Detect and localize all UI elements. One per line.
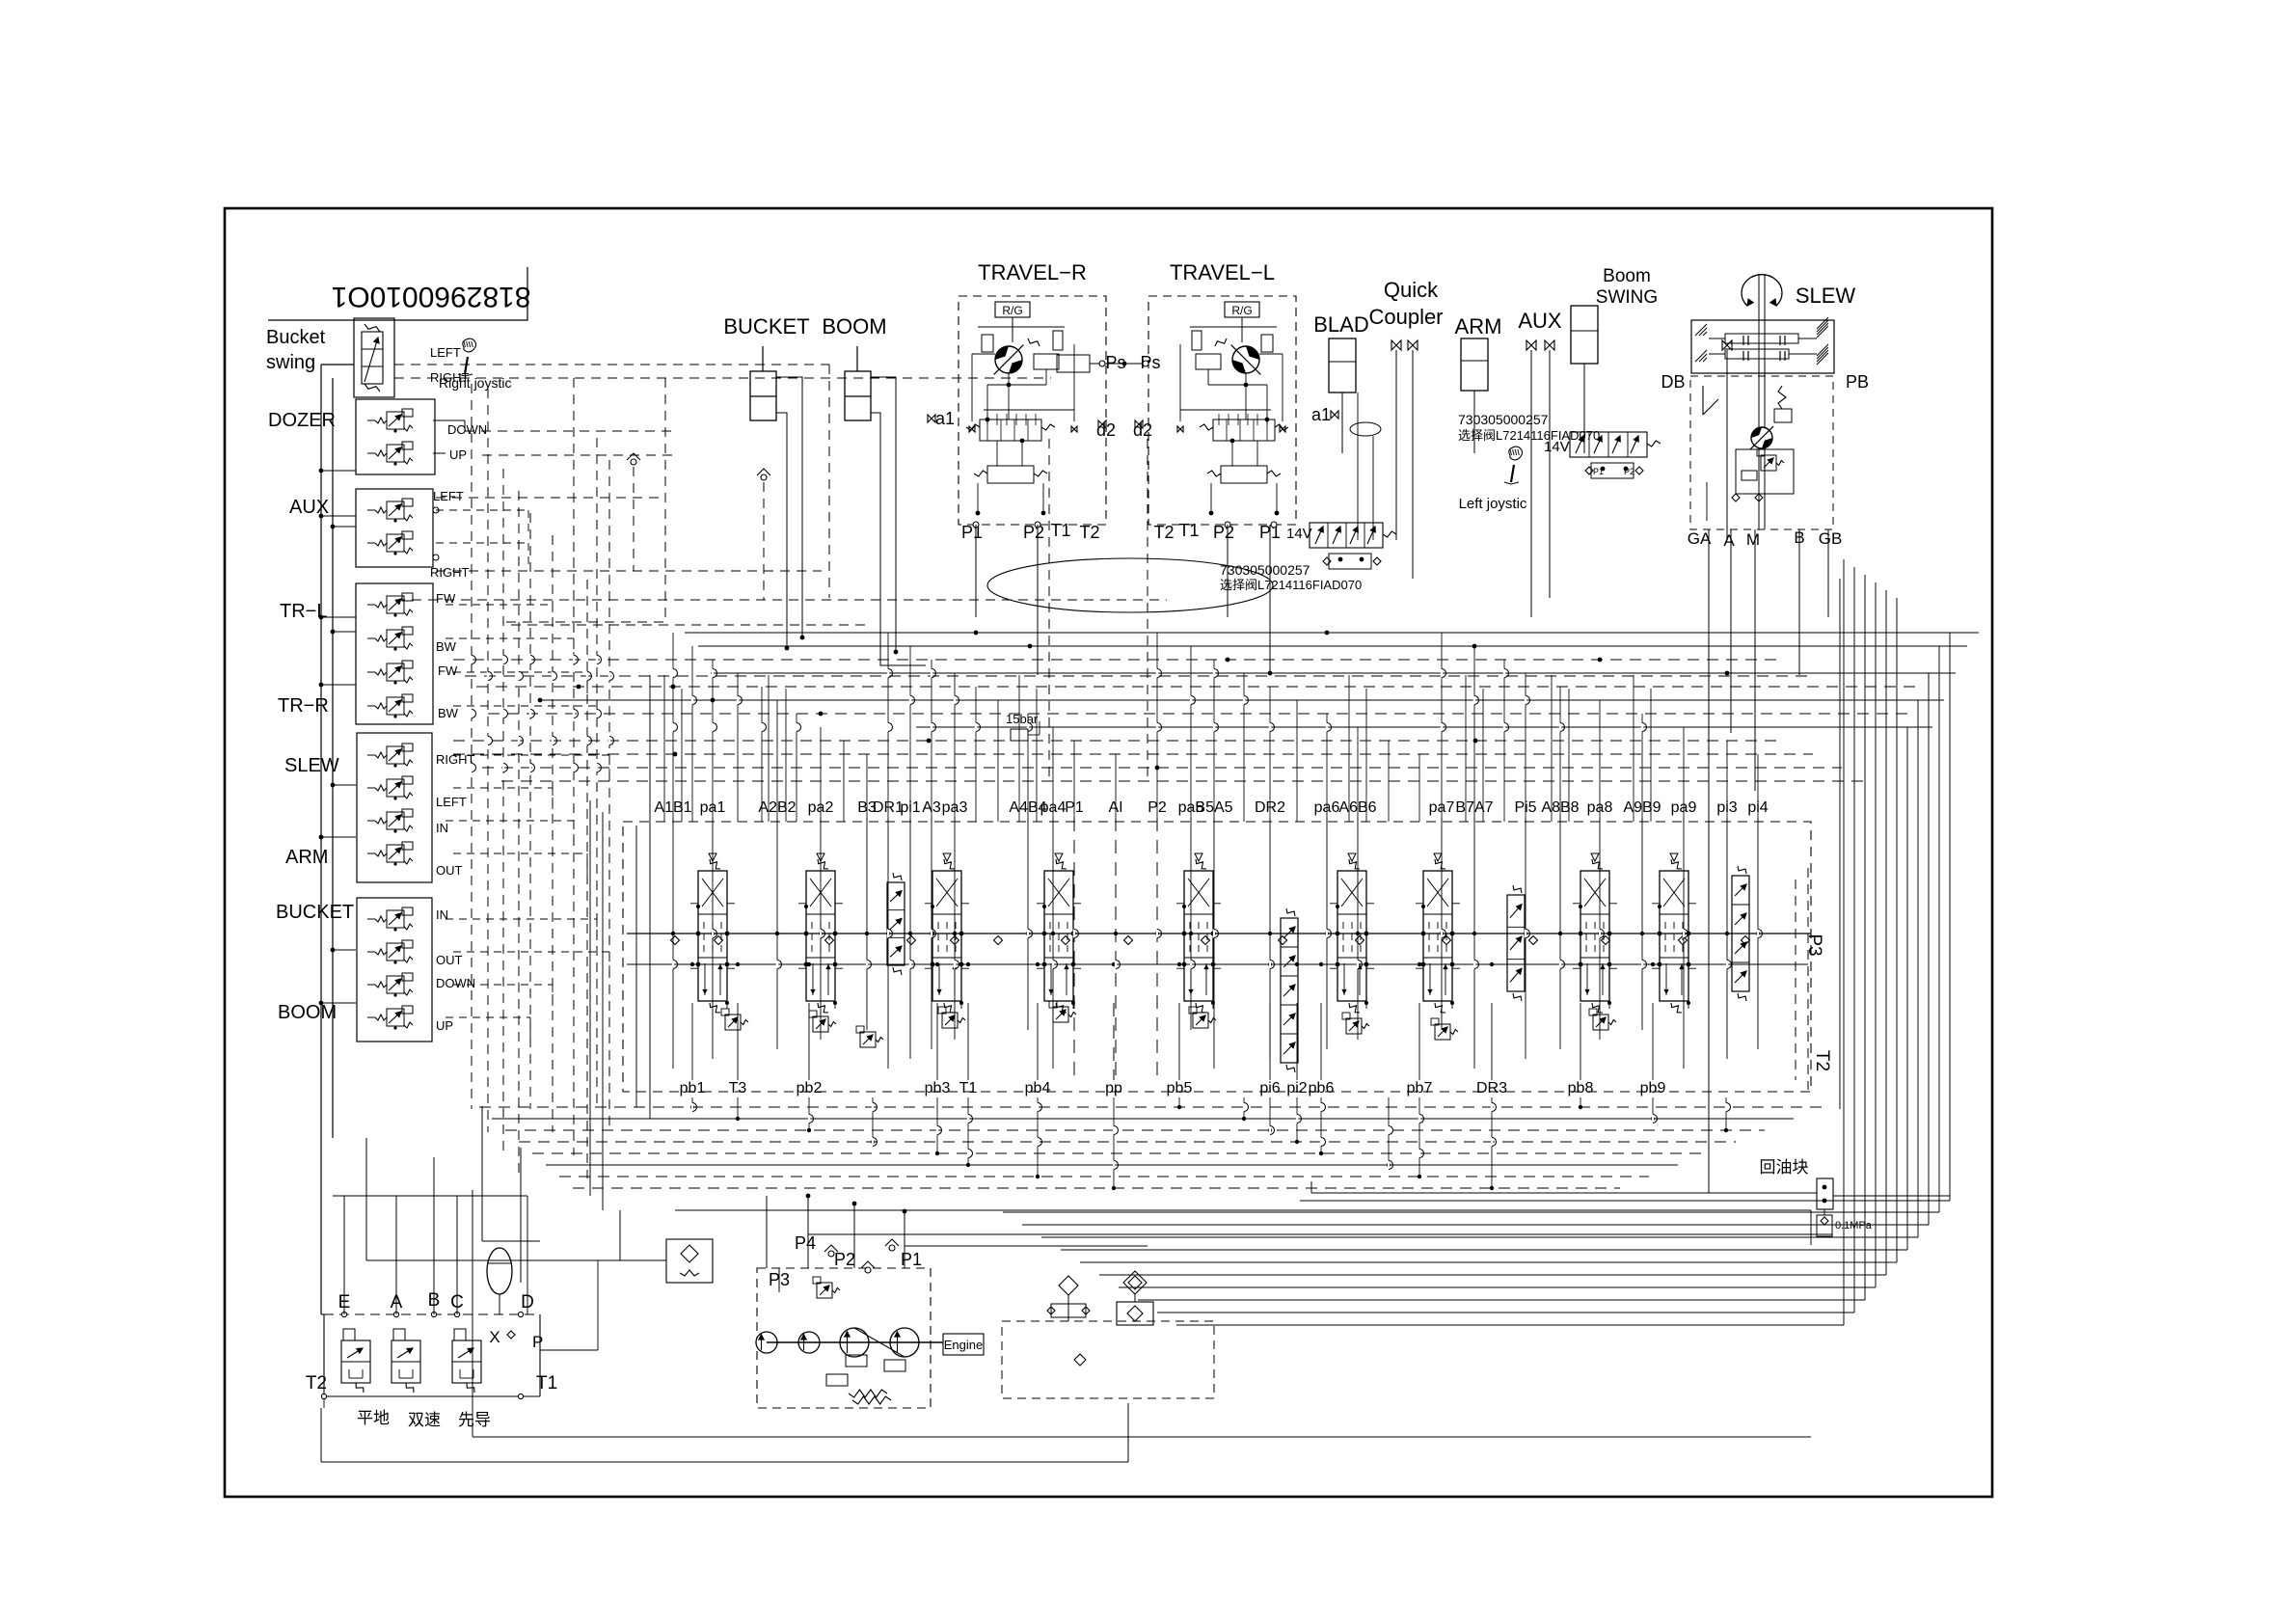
engine box (943, 1334, 984, 1355)
pilot sections (887, 882, 905, 965)
svg-text:平地: 平地 (357, 1409, 390, 1427)
svg-text:Engine: Engine (944, 1338, 983, 1352)
travel motor unit TRAVEL−R (959, 296, 1106, 525)
svg-text:BUCKET: BUCKET (723, 314, 809, 338)
pilot bus horizontal dashed lines (394, 377, 1051, 379)
svg-text:T2: T2 (306, 1373, 327, 1394)
svg-text:a1: a1 (1311, 405, 1331, 424)
svg-text:BLAD: BLAD (1313, 312, 1368, 337)
svg-text:pb4: pb4 (1025, 1080, 1051, 1096)
svg-text:R/G: R/G (1231, 304, 1252, 317)
travel pilot dashed drops (1048, 439, 1050, 783)
svg-text:BW: BW (436, 639, 457, 654)
svg-text:a1: a1 (935, 409, 955, 428)
central valve manifold outline (623, 822, 1811, 1092)
main spool sections (698, 871, 727, 1001)
svg-text:Right joystic: Right joystic (439, 375, 511, 391)
left supply wire (320, 365, 322, 1314)
border frame (225, 208, 1992, 1497)
svg-text:pb6: pb6 (1309, 1080, 1335, 1096)
svg-text:OUT: OUT (436, 863, 463, 878)
breather valve (1059, 1276, 1078, 1295)
check valve pilot lines (627, 453, 640, 460)
svg-text:0.1MPa: 0.1MPa (1835, 1220, 1873, 1232)
svg-text:pb1: pb1 (680, 1080, 706, 1096)
svg-text:LEFT: LEFT (436, 795, 467, 809)
right margin bus lines (1949, 633, 1951, 1201)
svg-text:Bucket: Bucket (266, 327, 326, 348)
svg-text:Quick: Quick (1384, 278, 1439, 302)
svg-text:P3: P3 (1804, 934, 1824, 956)
svg-text:BOOM: BOOM (278, 1002, 337, 1023)
svg-text:DR3: DR3 (1476, 1080, 1507, 1096)
svg-text:pb5: pb5 (1167, 1080, 1193, 1096)
P3 T2 dashed verticals (1795, 880, 1796, 1080)
port pair drops (663, 675, 665, 822)
svg-text:TRAVEL−L: TRAVEL−L (1170, 260, 1275, 284)
drops into manifold (343, 1196, 345, 1314)
svg-text:T1: T1 (959, 1080, 978, 1096)
svg-text:T1: T1 (1050, 521, 1070, 540)
svg-text:ARM: ARM (285, 847, 328, 868)
svg-text:IN: IN (436, 821, 448, 835)
svg-text:T3: T3 (729, 1080, 747, 1096)
svg-text:OUT: OUT (436, 953, 463, 967)
svg-text:GA: GA (1688, 529, 1712, 548)
slew rotation symbol (1742, 275, 1782, 306)
vertical drops from top to manifold (672, 633, 674, 822)
svg-text:DB: DB (1661, 372, 1685, 392)
mid horizontal bus lines dashed (453, 659, 1784, 661)
svg-text:GB: GB (1819, 529, 1843, 548)
svg-text:Coupler: Coupler (1368, 305, 1443, 329)
manifold left feeder verticals (589, 800, 591, 1196)
svg-text:选择阀L7214116FIAD070: 选择阀L7214116FIAD070 (1220, 578, 1362, 592)
svg-text:pi6: pi6 (1259, 1080, 1280, 1096)
section relief valves (725, 1015, 741, 1030)
svg-text:T2: T2 (1079, 523, 1099, 542)
manifold junction dots (696, 932, 701, 936)
svg-text:D: D (521, 1292, 534, 1313)
accumulator D riser (527, 1196, 528, 1314)
svg-text:SWING: SWING (1596, 287, 1658, 308)
svg-text:8182960010O1: 8182960010O1 (332, 281, 531, 312)
tank dashed box (1002, 1321, 1214, 1398)
travel drop lines (975, 525, 977, 617)
svg-text:15bar: 15bar (1006, 712, 1039, 726)
svg-text:SLEW: SLEW (284, 755, 339, 776)
small hose ellipse (1350, 422, 1381, 436)
svg-text:AUX: AUX (1518, 309, 1562, 333)
manifold mid rail (627, 933, 1811, 934)
svg-text:swing: swing (266, 352, 315, 373)
pump outlet lines (808, 1233, 1832, 1235)
manifold vertical port wires (672, 818, 674, 1069)
slew gearbox (1691, 320, 1834, 373)
svg-text:TRAVEL−R: TRAVEL−R (978, 260, 1087, 284)
svg-text:pi2: pi2 (1286, 1080, 1307, 1096)
svg-text:先导: 先导 (458, 1411, 491, 1429)
svg-text:pb8: pb8 (1568, 1080, 1594, 1096)
svg-text:T2: T2 (1812, 1050, 1832, 1071)
manifold rail jogs (672, 961, 674, 969)
svg-text:LEFT: LEFT (433, 489, 464, 503)
bottom bus lines (479, 1106, 1823, 1108)
drawing number box (268, 267, 527, 320)
svg-text:pb7: pb7 (1407, 1080, 1433, 1096)
svg-text:IN: IN (436, 907, 448, 922)
svg-text:T1: T1 (536, 1373, 557, 1394)
svg-text:P2: P2 (834, 1250, 855, 1269)
svg-text:双速: 双速 (408, 1411, 441, 1429)
pilot port link dashes (436, 509, 528, 511)
slew drop lines (1708, 529, 1710, 1193)
svg-text:LEFT: LEFT (430, 345, 461, 360)
svg-text:ARM: ARM (1455, 314, 1502, 338)
svg-text:P4: P4 (795, 1233, 816, 1253)
svg-text:T2: T2 (1153, 523, 1174, 542)
wire jump-over jogs (672, 669, 674, 678)
svg-text:Boom: Boom (1603, 266, 1651, 286)
svg-text:P1: P1 (961, 523, 983, 542)
return filter (1123, 1271, 1147, 1294)
svg-text:P2: P2 (1023, 523, 1044, 542)
pilot bus vertical dashed lines (471, 384, 473, 1109)
svg-text:P: P (532, 1333, 543, 1351)
svg-text:pb9: pb9 (1640, 1080, 1666, 1096)
top-left dashed loop (573, 378, 575, 622)
svg-text:730305000257: 730305000257 (1458, 412, 1549, 427)
travel motor unit TRAVEL−L (1148, 296, 1296, 525)
svg-text:回油块: 回油块 (1760, 1158, 1809, 1177)
bottom band left risers (481, 1106, 483, 1241)
svg-text:BW: BW (438, 706, 459, 720)
svg-text:14V: 14V (1544, 439, 1570, 455)
manifold bottom rail (323, 1396, 325, 1408)
accumulator (487, 1248, 512, 1294)
X valve right (1722, 340, 1732, 350)
svg-text:pb3: pb3 (925, 1080, 951, 1096)
svg-text:P1: P1 (901, 1250, 922, 1269)
svg-text:UP: UP (449, 447, 467, 462)
pilot filter (666, 1239, 713, 1283)
svg-text:DOWN: DOWN (447, 422, 487, 437)
right joystick (458, 374, 473, 376)
svg-text:14V: 14V (1286, 526, 1312, 542)
bus junction dots (800, 636, 805, 640)
svg-text:RIGHT: RIGHT (430, 565, 470, 580)
svg-text:DOZER: DOZER (268, 410, 336, 431)
left joystick icon (1504, 482, 1519, 484)
svg-text:Left joystic: Left joystic (1459, 496, 1527, 512)
svg-text:M: M (1746, 530, 1760, 549)
svg-text:R/G: R/G (1002, 304, 1022, 317)
svg-text:BOOM: BOOM (822, 314, 886, 338)
bottom drops (691, 1097, 693, 1107)
svg-text:A: A (1723, 531, 1735, 550)
pump regulators (817, 1283, 832, 1298)
svg-text:PB: PB (1846, 372, 1869, 392)
svg-text:SLEW: SLEW (1796, 284, 1856, 308)
svg-text:FW: FW (438, 663, 458, 678)
svg-text:T1: T1 (1178, 521, 1199, 540)
pilot manifold box EABCD (324, 1313, 540, 1315)
svg-text:选择阀L7214116FIAD070: 选择阀L7214116FIAD070 (1458, 428, 1600, 443)
svg-text:P2: P2 (1213, 523, 1234, 542)
svg-text:pb2: pb2 (797, 1080, 823, 1096)
svg-text:BUCKET: BUCKET (276, 902, 354, 923)
manifold solenoid valves (341, 1340, 370, 1383)
svg-text:pp: pp (1105, 1080, 1122, 1096)
hose loop ellipse (987, 558, 1273, 612)
mid horizontal bus lines solid (685, 632, 1979, 634)
svg-text:UP: UP (436, 1018, 453, 1033)
lower long wires (365, 1138, 367, 1260)
svg-text:FW: FW (436, 591, 456, 606)
svg-text:X: X (489, 1328, 500, 1346)
svg-text:730305000257: 730305000257 (1220, 562, 1310, 578)
svg-text:DOWN: DOWN (436, 976, 475, 990)
